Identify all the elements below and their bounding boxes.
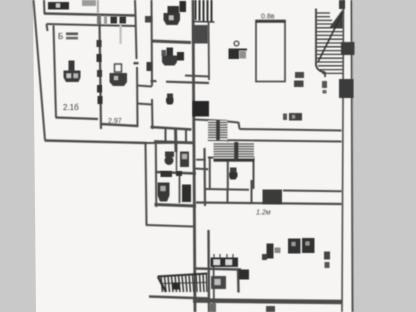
wc2 room top wall (208, 158, 254, 160)
narrow room right wall x135 upper (136, 15, 137, 59)
radiator on right wall (341, 42, 355, 55)
svg-text:2.1б: 2.1б (63, 103, 79, 112)
long central vertical wall x192 (193, 0, 195, 312)
svg-text:1.2м: 1.2м (256, 210, 271, 217)
entrance steps hatch (196, 0, 212, 22)
wc2 toilet (167, 48, 174, 56)
cluster bottom wall (155, 205, 197, 207)
wall x145 down (146, 143, 147, 226)
corridor door dark block (263, 190, 283, 205)
wc notch dark (147, 62, 153, 71)
bottom sink counter (211, 258, 239, 268)
wall x209 upper (208, 22, 211, 80)
right staircase (316, 0, 345, 77)
corridor jog vertical (239, 122, 240, 129)
stove/sink fixture mid (234, 41, 239, 46)
stair2 bottom frame (214, 160, 255, 162)
cluster upper divider (176, 144, 178, 171)
small label mid-right (283, 114, 287, 121)
top wall piece (339, 0, 345, 9)
piece wall y168 (194, 168, 209, 171)
corridor cross wall y85 (137, 86, 152, 87)
main top wall (second line) (47, 24, 137, 26)
wc bottom wall (185, 76, 209, 77)
wc2-room toilet (230, 168, 237, 173)
connector x165 (165, 129, 167, 142)
stub corner left (47, 24, 48, 31)
dark block below steps (193, 25, 209, 44)
central room toilet (167, 94, 173, 99)
cluster right wall x205 (203, 148, 206, 206)
wc left wall upper (151, 0, 154, 86)
cluster mid horizontal wall (155, 172, 196, 174)
corner tick x148 (145, 16, 152, 23)
dark block at L corner (239, 270, 250, 280)
narrow room right wall x136 lower (136, 67, 139, 127)
cluster fixture upper-right (180, 152, 189, 168)
small glyph under stairs (322, 81, 327, 88)
top-left stove fixture (48, 2, 69, 10)
corridor jog top (228, 122, 239, 123)
left wing bottom wall (45, 141, 148, 144)
window post 2 (120, 17, 127, 24)
top-left block left wall (43, 0, 46, 14)
shaft rectangle (256, 21, 285, 82)
wc2 room right wall (253, 157, 255, 189)
wc divider wall (152, 41, 192, 43)
wall x99 between rooms (100, 22, 102, 130)
shower square (211, 276, 226, 289)
svg-text:2.97: 2.97 (108, 118, 122, 125)
stair1 (small, mid-left) (208, 121, 228, 141)
wall stub below bottom wall (209, 303, 216, 312)
corridor cross wall y103 (137, 104, 152, 105)
svg-text:Б: Б (58, 32, 63, 41)
stair2 (wider) (214, 142, 255, 161)
central room bottom wall (151, 127, 192, 130)
dark bands on wall x99 (97, 40, 102, 47)
bottom-left wall x209 (207, 230, 210, 312)
cluster dark rect lower-right (182, 185, 191, 203)
wc2 dark square (177, 52, 184, 61)
narrow room bottom wall (101, 124, 139, 126)
central room top wall seg1 (151, 80, 157, 82)
small 5-glyph (324, 252, 330, 260)
chimney black block (193, 101, 210, 117)
room B toilet fixture (69, 61, 75, 71)
dark triangle upper (329, 9, 343, 28)
cluster door blocks on mid wall (161, 171, 173, 177)
room B bottom wall (56, 118, 99, 120)
left outer wall (slanted) (34, 0, 46, 140)
wc1 toilet (168, 6, 180, 13)
corridor upper wall right part (240, 129, 342, 131)
top-left gray cabinet (82, 0, 96, 6)
svg-text:0.8в: 0.8в (261, 14, 275, 21)
central room top wall seg2 (166, 82, 209, 83)
long wall y141 across (147, 142, 195, 144)
corridor tick x227 (227, 189, 229, 203)
niche stub upper (196, 159, 205, 161)
stair1 top wall (195, 120, 228, 122)
bottom-left wall x213 (213, 260, 216, 312)
armchair fixture (267, 244, 274, 259)
bottom stair (vertical treads) (158, 274, 208, 293)
right inner wall (342, 0, 344, 312)
wc left wall lower (151, 99, 154, 129)
wc1 dark square (180, 1, 187, 12)
bottom L-wall vertical (237, 269, 240, 293)
small stub below wall right (266, 306, 275, 312)
double dark windows bottom-right (288, 239, 301, 254)
wall to bottom-section (146, 225, 193, 227)
narrow room small square (115, 64, 122, 72)
bottom outer wall (193, 301, 342, 303)
cluster sink lower-left (158, 183, 170, 202)
main corridor upper wall seg1 (205, 188, 249, 191)
cluster lower divider (179, 175, 181, 203)
curved rail bottom (316, 63, 325, 72)
big dark block on right wall (339, 79, 354, 98)
window post 1 (111, 17, 118, 24)
stair bottom line (149, 297, 209, 299)
RUV label (295, 72, 304, 78)
top-left block right wall (134, 0, 137, 15)
bottom L-wall horizontal (194, 269, 241, 270)
connector x175 thick (174, 128, 178, 153)
cluster left wall (155, 142, 158, 207)
stair diagonal (318, 12, 343, 62)
plan paper (33, 0, 353, 312)
top-left block bottom wall (44, 14, 136, 16)
wc2-room left wall (209, 157, 211, 189)
main corridor lower wall (196, 203, 342, 205)
wc2 room left wall (227, 142, 229, 189)
room B left wall (54, 26, 57, 118)
faint post near x100 (97, 15, 101, 24)
corridor lower wall (208, 140, 342, 142)
cluster toilet upper-left (165, 152, 174, 158)
cluster top wall (154, 142, 193, 143)
right outer wall (352, 0, 353, 312)
connector x186 (185, 130, 187, 142)
corridor tick x251 (251, 180, 253, 203)
narrow room sink (110, 73, 128, 86)
main corridor upper wall seg2 (283, 190, 342, 193)
